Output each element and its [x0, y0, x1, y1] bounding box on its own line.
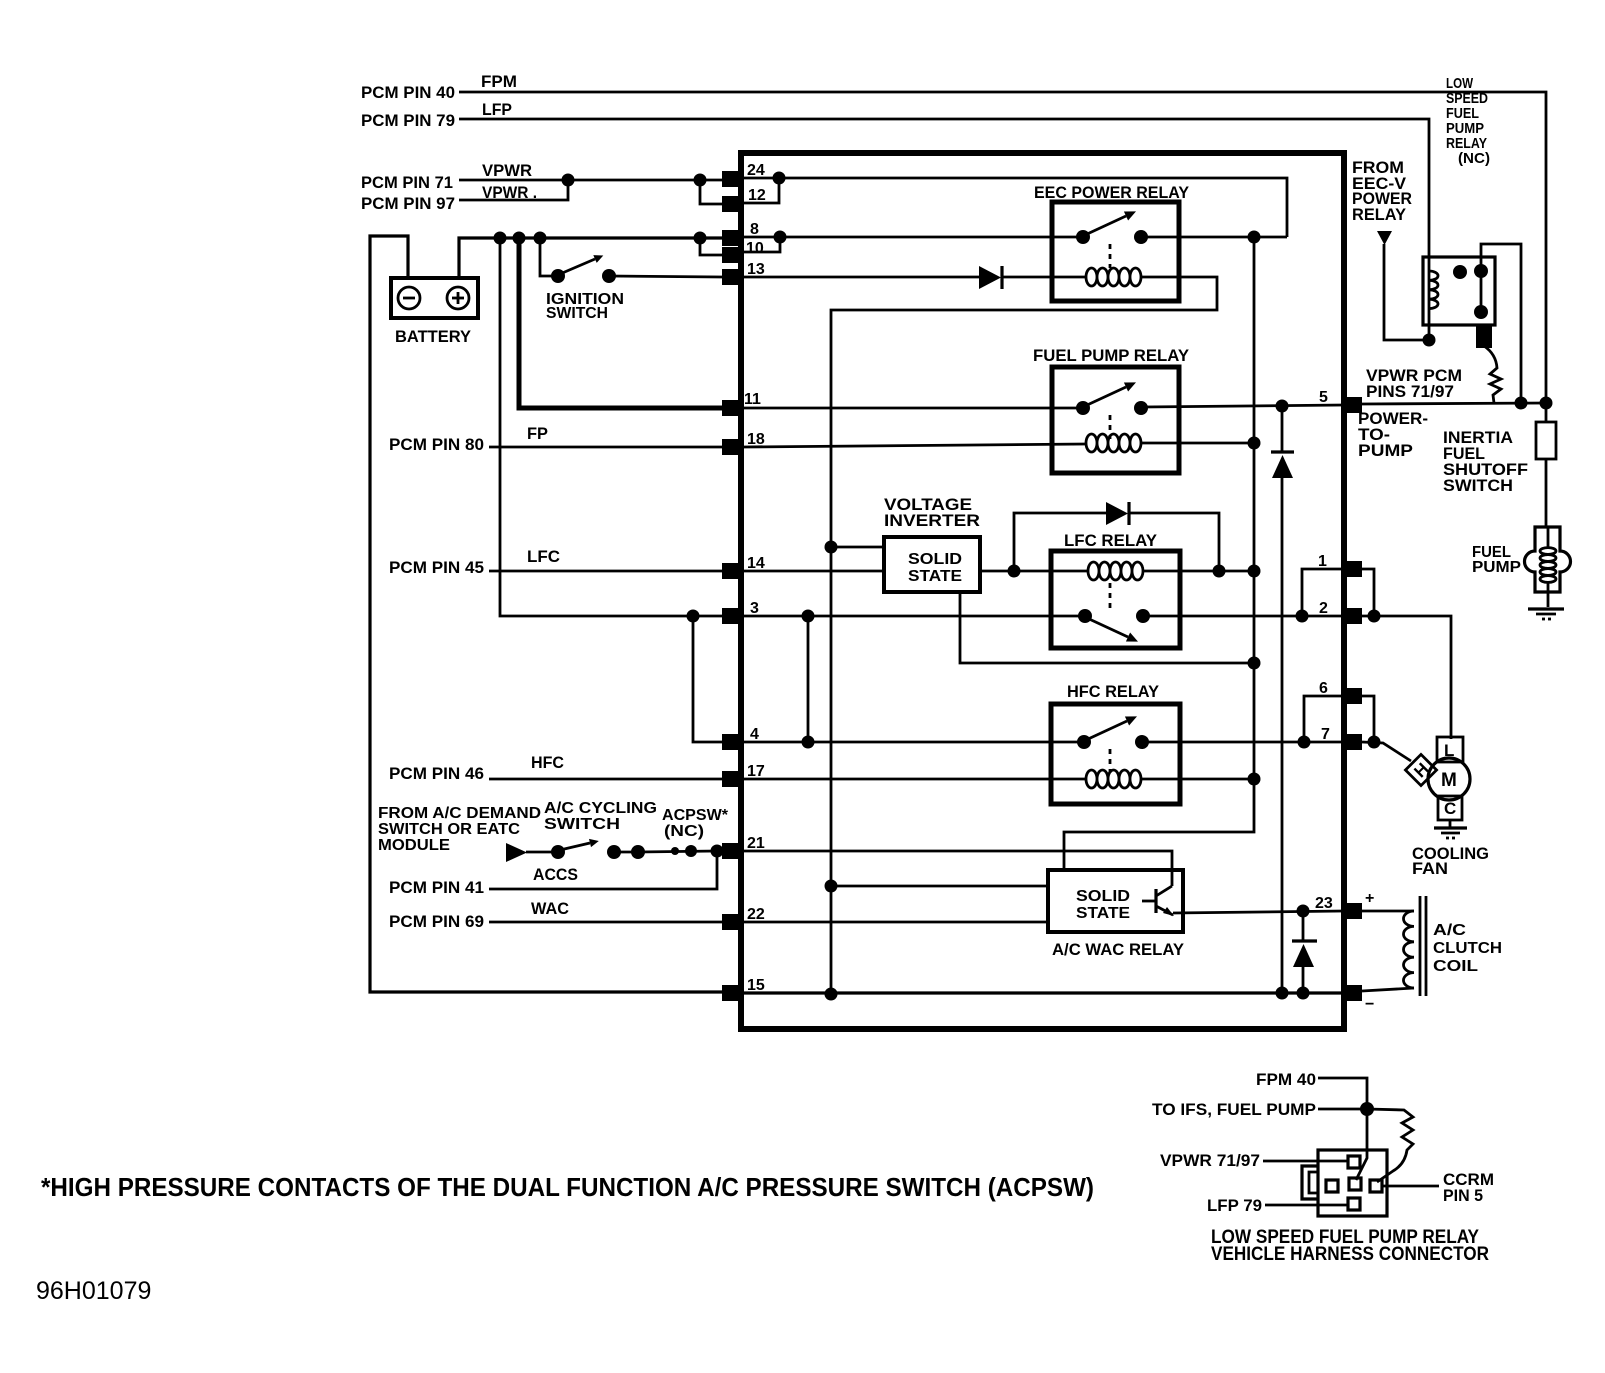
LFC flyback diode branch — [1014, 502, 1219, 571]
wire EEC-V power relay to LSFP relay coil — [1384, 244, 1436, 347]
wire LFC from PCM PIN 45 to CCRM pin 14 — [489, 570, 722, 573]
pin 21 pad — [722, 843, 742, 859]
svg-text:22: 22 — [747, 906, 765, 923]
resistor R1 (relay output) — [1484, 346, 1501, 403]
svg-text:−: − — [1365, 996, 1374, 1013]
wire ignition switch to CCRM pin 13 — [609, 276, 722, 277]
node: PCM PIN 71 label — [361, 173, 453, 192]
ignition switch — [546, 255, 624, 322]
svg-text:5: 5 — [1319, 389, 1328, 406]
svg-text:SOLID: SOLID — [908, 551, 962, 568]
fuel pump ground — [1528, 609, 1564, 619]
CCRM module box — [741, 153, 1344, 1029]
svg-text:12: 12 — [748, 187, 766, 204]
wire main power feed to CCRM pin 11 — [519, 238, 722, 408]
svg-text:VPWR 71/97: VPWR 71/97 — [1160, 1151, 1260, 1170]
wire voltage inverter second output to coil return rail — [960, 592, 1261, 670]
svg-text:PUMP: PUMP — [1472, 559, 1521, 576]
wire A/C clutch coil return to pin 15 pad — [1362, 988, 1414, 991]
pin 17 label — [747, 763, 765, 780]
wire VPWR PCM PIN 71 to CCRM pin 24 — [459, 179, 741, 182]
diode D1 on pin 13 line — [979, 266, 1002, 289]
junction pin3/pin4 feed — [687, 610, 700, 623]
voltage inverter label — [884, 495, 980, 530]
svg-text:PCM PIN 46: PCM PIN 46 — [389, 764, 484, 783]
svg-text:A/C CYCLING: A/C CYCLING — [544, 800, 657, 817]
svg-text:4: 4 — [750, 726, 759, 743]
pin 23 label — [1315, 895, 1333, 912]
net label WAC — [531, 899, 569, 918]
junction harness FPM node — [1360, 1102, 1374, 1116]
pin 5 pad — [1344, 397, 1362, 413]
pin 13 pad — [722, 269, 742, 285]
junction D2/pin15 — [1276, 987, 1289, 1000]
junction inverter rail to WAC relay — [825, 880, 838, 893]
wire battery negative to ground rail — [370, 236, 722, 992]
svg-text:PCM PIN 41: PCM PIN 41 — [389, 878, 484, 897]
resistor R2 (harness) — [1367, 1109, 1413, 1182]
svg-text:SWITCH: SWITCH — [544, 816, 620, 833]
wire diode to EEC coil — [1003, 276, 1086, 279]
wire pin 2 to cooling fan low — [1362, 616, 1451, 739]
wire pin 14 inside to voltage inverter — [744, 570, 884, 573]
svg-text:MODULE: MODULE — [378, 837, 450, 854]
wire FPM 40 to harness junction — [1318, 1078, 1367, 1109]
svg-text:SWITCH OR EATC: SWITCH OR EATC — [378, 821, 520, 838]
wire loop pin 6 to pin 7 (outside) — [1362, 696, 1381, 749]
EEC relay coil — [1086, 268, 1141, 286]
node: PCM PIN 46 label — [389, 764, 484, 783]
svg-text:CLUTCH: CLUTCH — [1433, 940, 1502, 957]
pin 1 label — [1318, 553, 1327, 570]
pin 11 pad — [722, 400, 742, 416]
battery — [391, 278, 478, 346]
junction pin 23 / diode — [1297, 905, 1310, 918]
svg-text:LFC RELAY: LFC RELAY — [1064, 531, 1158, 550]
svg-text:*HIGH PRESSURE CONTACTS OF THE: *HIGH PRESSURE CONTACTS OF THE DUAL FUNC… — [41, 1172, 1094, 1202]
svg-text:M: M — [1441, 770, 1457, 791]
pin 8 label — [750, 221, 759, 238]
svg-text:LFP 79: LFP 79 — [1207, 1196, 1262, 1215]
svg-text:PIN 5: PIN 5 — [1443, 1186, 1483, 1205]
svg-text:6: 6 — [1319, 680, 1328, 697]
low speed fuel pump relay — [1423, 257, 1495, 325]
svg-text:96H01079: 96H01079 — [36, 1277, 151, 1305]
battery B+ bus wire to CCRM pin 8 — [459, 238, 741, 278]
pin 1 pad — [1344, 561, 1362, 577]
wire pin 17 inside to HFC coil — [744, 778, 1086, 781]
svg-text:FROM A/C DEMAND: FROM A/C DEMAND — [378, 805, 541, 822]
pin 12 label — [748, 187, 766, 204]
svg-text:PCM PIN 40: PCM PIN 40 — [361, 83, 455, 102]
wire pin 4 inside through HFC switch to pin 7 — [744, 741, 1344, 744]
pin 2 pad — [1344, 608, 1362, 624]
wire pin 22 inside to WAC relay box — [744, 921, 1050, 924]
svg-text:23: 23 — [1315, 895, 1333, 912]
pin 11 label — [744, 391, 761, 408]
pin 3 pad — [722, 608, 742, 624]
svg-text:11: 11 — [744, 391, 761, 408]
wire loop pin 24 to pin 12 (inside) — [744, 172, 786, 204]
junction LFC bypass diode right — [1213, 565, 1226, 578]
diode D2 from pin 5 line down — [1271, 406, 1294, 993]
HFC relay — [1051, 682, 1180, 804]
wire loop pin 8 to pin 10 (inside) — [744, 231, 787, 253]
wire A/C demand to cycling switch — [526, 851, 558, 854]
svg-text:RELAY: RELAY — [1352, 205, 1407, 224]
node: PCM PIN 41 label — [389, 878, 484, 897]
junction inverter feed — [825, 541, 838, 554]
voltage inverter solid state box U1 — [884, 537, 980, 592]
junction D3/pin15 — [1297, 987, 1310, 1000]
node: PCM PIN 69 label — [389, 912, 484, 931]
svg-text:HFC RELAY: HFC RELAY — [1067, 682, 1160, 701]
junction FPM / power line — [1540, 397, 1553, 410]
svg-text:A/C: A/C — [1433, 922, 1467, 939]
wire pin 24 inside to EEC relay output — [744, 178, 1287, 237]
svg-text:FPM 40: FPM 40 — [1256, 1070, 1316, 1089]
junction rail/pin15 — [825, 988, 838, 1001]
plus label pin 23 — [1365, 890, 1374, 907]
svg-text:A/C WAC RELAY: A/C WAC RELAY — [1052, 940, 1185, 959]
pin 5 label — [1319, 389, 1328, 406]
svg-text:24: 24 — [747, 162, 765, 179]
pin 3 label — [750, 600, 759, 617]
svg-text:PINS 71/97: PINS 71/97 — [1366, 382, 1454, 401]
svg-text:WAC: WAC — [531, 899, 569, 918]
wire pin 11 inside to fuel pump relay switch — [744, 407, 1083, 410]
wire WAC transistor output to pin 23 — [1173, 911, 1344, 913]
wire junction to voltage inverter box — [831, 546, 886, 549]
svg-text:17: 17 — [747, 763, 765, 780]
net label LFP — [482, 100, 512, 119]
svg-text:2: 2 — [1319, 600, 1328, 617]
pin 15 label — [747, 977, 765, 994]
junction EEC output / coil supply rail — [1248, 231, 1261, 244]
LFC relay — [1051, 531, 1180, 648]
pin 4 pad — [722, 734, 742, 750]
wire pin 3 / pin 4 bridge inside module — [802, 610, 815, 749]
svg-text:21: 21 — [747, 835, 765, 852]
node: PCM PIN 80 label — [389, 435, 484, 454]
wire pin 23 to A/C clutch coil — [1362, 910, 1414, 913]
connector pin VPWR 71/97 — [1160, 1151, 1348, 1170]
wire junction into connector center pin — [1356, 1109, 1367, 1180]
fuel pump relay coil — [1086, 434, 1141, 452]
LFC relay switch and dashed actuator — [1078, 583, 1150, 642]
svg-text:(NC): (NC) — [1458, 150, 1490, 167]
svg-text:STATE: STATE — [1076, 905, 1130, 922]
pin 24 pad — [722, 171, 742, 187]
wire loop pin 1 to pin 2 (outside) — [1362, 569, 1381, 623]
net label FP — [527, 424, 548, 443]
pin 22 label — [747, 906, 765, 923]
net label LFC — [527, 547, 560, 566]
pin 2 label — [1319, 600, 1328, 617]
LFC relay coil — [1088, 562, 1143, 580]
pin 15 pad — [722, 985, 742, 1001]
A/C cycling switch — [544, 800, 657, 859]
wire TO IFS to harness junction — [1318, 1108, 1367, 1111]
svg-text:7: 7 — [1321, 726, 1330, 743]
svg-text:FUEL PUMP RELAY: FUEL PUMP RELAY — [1033, 346, 1190, 365]
wire inverter rail to WAC relay box — [831, 885, 1050, 888]
svg-text:(NC): (NC) — [664, 823, 704, 840]
wire WAC from PCM PIN 69 to CCRM pin 22 — [489, 921, 722, 924]
COOLING FAN label — [1412, 844, 1489, 878]
svg-text:EEC POWER RELAY: EEC POWER RELAY — [1034, 183, 1190, 202]
net label ACCS — [533, 865, 578, 884]
pin 7 label — [1321, 726, 1330, 743]
wire pin 18 inside to fuel pump relay coil — [744, 444, 1086, 447]
node: FROM EEC-V POWER RELAY label — [1352, 158, 1412, 224]
pin 6 label — [1319, 680, 1328, 697]
node: PCM PIN 45 label — [389, 558, 484, 577]
inertia fuel shutoff switch — [1536, 403, 1556, 459]
svg-text:PUMP: PUMP — [1358, 441, 1413, 460]
net label HFC — [531, 753, 564, 772]
svg-text:PCM PIN 80: PCM PIN 80 — [389, 435, 484, 454]
minus label — [1365, 996, 1374, 1013]
pin 8 pad — [722, 230, 742, 246]
svg-text:SOLID: SOLID — [1076, 888, 1130, 905]
wire loop pin 1 to pin 2 (inside) — [1296, 569, 1345, 623]
pin 4 label — [750, 726, 759, 743]
wire fuel pump relay coil to supply rail — [1141, 437, 1261, 450]
wire EEC coil return to voltage inverter rail — [831, 277, 1217, 995]
net label VPWR (pin 97) — [482, 183, 537, 202]
pin 12 pad — [722, 196, 742, 212]
wire pin 3 line down to pin 4 — [693, 616, 722, 742]
svg-text:ACPSW*: ACPSW* — [662, 807, 729, 824]
fuel pump relay — [1033, 346, 1190, 473]
svg-text:8: 8 — [750, 221, 759, 238]
wire VPWR PCM PIN 97 joining pin 71 line — [459, 174, 575, 201]
A/C demand input arrow — [506, 843, 527, 862]
svg-text:VPWR: VPWR — [482, 161, 532, 180]
svg-text:ACCS: ACCS — [533, 865, 578, 884]
svg-text:PCM PIN 97: PCM PIN 97 — [361, 194, 455, 213]
pin 10 pad — [722, 247, 742, 263]
wire pin 13 inside to EEC coil — [744, 276, 980, 279]
wire loop pin 24 line down to pin 12 (outside) — [694, 174, 723, 205]
EEC power relay — [1034, 183, 1190, 301]
svg-text:FPM: FPM — [481, 72, 517, 91]
wire pin 8 inside to EEC relay switch — [744, 236, 1287, 239]
svg-text:PCM PIN 45: PCM PIN 45 — [389, 558, 484, 577]
A/C WAC relay solid state box U2 — [1048, 870, 1183, 932]
svg-text:LFC: LFC — [527, 547, 560, 566]
pin 13 label — [747, 261, 765, 278]
svg-text:L: L — [1444, 741, 1454, 760]
svg-text:PCM PIN 79: PCM PIN 79 — [361, 111, 455, 130]
pin 14 label — [747, 555, 765, 572]
WAC relay transistor Q1 — [1142, 886, 1174, 916]
net label VPWR PCM PINS 71/97 — [1366, 366, 1462, 401]
pin 10 label — [746, 240, 764, 257]
svg-text:SWITCH: SWITCH — [1443, 476, 1513, 495]
junction bus/pin11 feed — [513, 232, 526, 245]
net label FPM — [481, 72, 517, 91]
wire loop pin 8 line down to pin 10 (outside) — [694, 232, 723, 256]
low speed fuel pump relay vehicle harness connector — [1302, 1150, 1387, 1216]
pin 7 pad — [1344, 734, 1362, 750]
net label FPM 40 — [1256, 1070, 1316, 1089]
svg-text:SWITCH: SWITCH — [546, 305, 608, 322]
node: INERTIA FUEL SHUTOFF SWITCH label — [1443, 428, 1528, 495]
pin 17 pad — [722, 771, 742, 787]
A/C pressure switch ACPSW (NC) — [607, 807, 729, 859]
pin 6 pad — [1344, 688, 1362, 704]
pin 22 pad — [722, 914, 742, 930]
wire ACCS from PCM PIN 41 to ACPSW output — [489, 851, 717, 889]
pin 24 label — [747, 162, 765, 179]
net label POWER-TO-PUMP — [1358, 409, 1428, 460]
drawing number 96H01079 — [36, 1277, 151, 1305]
pin 18 pad — [722, 439, 742, 455]
wire loop pin 6 to pin 7 (inside) — [1298, 696, 1345, 749]
footnote: high pressure contacts — [41, 1172, 1094, 1202]
node: FROM A/C DEMAND SWITCH OR EATC MODULE label — [378, 805, 541, 854]
cooling fan motor — [1405, 737, 1470, 820]
wire pin 3 inside through LFC switch to pin 2 — [744, 615, 1344, 618]
net label VPWR (pin 71) — [482, 161, 532, 180]
svg-text:LFP: LFP — [482, 100, 512, 119]
wire ignition switch feed — [540, 238, 558, 276]
wire LSFP NC contact bypass to power line — [1481, 244, 1521, 403]
wire inverter output to LFC coil — [980, 570, 1088, 573]
svg-text:13: 13 — [747, 261, 765, 278]
wire HFC from PCM PIN 46 to CCRM pin 17 — [489, 778, 722, 781]
wire pin 7 to cooling fan high — [1362, 742, 1411, 761]
svg-text:PCM PIN 69: PCM PIN 69 — [389, 912, 484, 931]
svg-text:HFC: HFC — [531, 753, 564, 772]
svg-text:FP: FP — [527, 424, 548, 443]
svg-text:3: 3 — [750, 600, 759, 617]
svg-text:C: C — [1444, 799, 1456, 818]
diode D3 from pin 23 line down — [1292, 911, 1317, 993]
wire battery bus down to pin 3 line — [500, 238, 722, 616]
svg-text:COIL: COIL — [1433, 958, 1478, 975]
wire FPM from PCM PIN 40 to fuel pump feed junction — [459, 92, 1546, 402]
vertical VPWR coil supply rail — [1064, 237, 1254, 868]
pin 23 pad — [1344, 903, 1362, 919]
junction pin 5 / clutch diode rail — [1276, 400, 1289, 413]
svg-text:STATE: STATE — [908, 568, 962, 585]
svg-text:BATTERY: BATTERY — [395, 327, 472, 346]
connector pin LFP 79 — [1207, 1196, 1348, 1215]
node: PCM PIN 97 label — [361, 194, 455, 213]
junction NC bypass / power line — [1515, 397, 1528, 410]
wire fuel pump relay output to pin 5 — [1141, 405, 1344, 407]
junction LFC bypass diode left — [1008, 565, 1021, 578]
wire pin 5 power-to-pump line — [1362, 403, 1549, 404]
node: LOW SPEED FUEL PUMP RELAY VEHICLE HARNESS CONNECTOR label — [1211, 1227, 1489, 1265]
wire LSFP relay coil return — [1428, 325, 1431, 340]
pin 21 label — [747, 835, 765, 852]
fuel pump — [1525, 459, 1571, 607]
node: FUEL PUMP label — [1472, 544, 1521, 576]
HFC relay coil — [1086, 770, 1141, 788]
svg-text:+: + — [1365, 890, 1374, 907]
wire FP from PCM PIN 80 to CCRM pin 18 — [489, 446, 722, 449]
net label TO IFS, FUEL PUMP — [1152, 1100, 1316, 1119]
pin 14 pad — [722, 563, 742, 579]
connector pin CCRM PIN 5 — [1382, 1170, 1494, 1205]
A/C WAC RELAY label — [1052, 940, 1185, 959]
cooling fan ground — [1434, 820, 1467, 838]
svg-text:14: 14 — [747, 555, 765, 572]
node: PCM PIN 79 label — [361, 111, 455, 130]
svg-text:TO IFS, FUEL PUMP: TO IFS, FUEL PUMP — [1152, 1100, 1316, 1119]
LSFP relay output pad — [1476, 324, 1492, 348]
svg-text:VEHICLE HARNESS CONNECTOR: VEHICLE HARNESS CONNECTOR — [1211, 1244, 1489, 1265]
wire HFC coil to supply rail — [1141, 773, 1261, 786]
junction ACCS / pin 21 — [711, 845, 724, 858]
junction bus/ignition switch feed — [534, 232, 547, 245]
svg-text:FAN: FAN — [1412, 859, 1448, 878]
svg-text:PCM PIN 71: PCM PIN 71 — [361, 173, 453, 192]
pin 18 label — [747, 431, 765, 448]
wire LFP from PCM PIN 79 to low speed fuel pump relay coil — [459, 119, 1429, 259]
svg-text:1: 1 — [1318, 553, 1327, 570]
A/C clutch coil — [1403, 896, 1502, 996]
pin 15 out pad (A/C clutch return) — [1344, 985, 1362, 1001]
node: LOW SPEED FUEL PUMP RELAY (NC) label — [1446, 75, 1490, 167]
EEC-V feed arrow — [1377, 231, 1392, 245]
wire pin 15 line across module — [744, 991, 1344, 994]
node: PCM PIN 40 label — [361, 83, 455, 102]
svg-text:INVERTER: INVERTER — [884, 511, 980, 530]
svg-text:10: 10 — [746, 240, 764, 257]
junction bus/left rail feed — [494, 232, 507, 245]
wire LFC coil to supply rail — [1143, 565, 1261, 578]
wire pin 21 inside to A/C WAC relay transistor — [744, 851, 1172, 886]
